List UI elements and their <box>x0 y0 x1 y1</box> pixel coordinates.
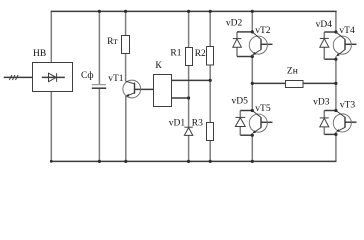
svg-text:К: К <box>155 61 162 71</box>
wire vT2 base stub <box>261 43 273 45</box>
wire R2 branch upper <box>209 11 211 47</box>
svg-text:R1: R1 <box>170 49 181 59</box>
wire vD3 top lead <box>324 110 336 112</box>
transistor vT5 <box>249 114 267 132</box>
node junction right rail vD4 top <box>334 30 337 33</box>
svg-text:vT5: vT5 <box>255 104 271 114</box>
node junction bottom rail mid <box>251 160 254 163</box>
transistor vT4 <box>333 36 351 54</box>
wire vT4 base stub <box>345 43 357 45</box>
wire top rail <box>51 10 337 12</box>
node junction K lower lead R1 <box>187 96 190 99</box>
svg-text:vD5: vD5 <box>232 97 249 107</box>
node junction right rail Zn <box>334 82 337 85</box>
node junction right rail vD3 bottom <box>334 133 337 136</box>
wire left rail upper segment <box>50 11 52 63</box>
svg-text:vD4: vD4 <box>316 20 333 30</box>
svg-text:vT4: vT4 <box>339 26 355 36</box>
zener diode vD1 <box>184 126 192 128</box>
node junction top rail capacitor <box>98 10 101 13</box>
transistor vT1 <box>123 80 141 98</box>
node junction bottom rail vD1 <box>187 160 190 163</box>
node junction bottom rail capacitor <box>98 160 101 163</box>
wire capacitor branch upper <box>98 11 100 84</box>
transistor vT2 <box>249 36 267 54</box>
wire R3 to bottom rail <box>209 141 211 162</box>
diode vD4 <box>320 37 329 39</box>
node junction mid rail vD2 bottom <box>251 55 254 58</box>
wire vT1 emitter down <box>125 96 127 161</box>
node junction top rail Rt <box>124 10 127 13</box>
wire vD5 anode-cathode verticals <box>239 111 241 136</box>
wire right rail segment 1 <box>335 11 337 32</box>
resistor R2 <box>207 47 214 66</box>
resistor Rt <box>122 36 130 54</box>
wire left rail lower segment <box>50 92 52 162</box>
wire R1 to vD1 <box>188 66 190 128</box>
wire vT5 emitter rail stub <box>251 133 253 135</box>
wire vT1 base to K box <box>135 88 154 90</box>
svg-text:vT3: vT3 <box>340 101 356 111</box>
wire vT3 base stub <box>345 121 357 123</box>
svg-text:Сф: Сф <box>81 70 94 81</box>
node junction top rail R2 <box>209 10 212 13</box>
wire vD2 anode-cathode verticals <box>236 32 238 57</box>
node junction mid rail Zn <box>251 82 254 85</box>
diode vD2 <box>233 38 242 40</box>
node junction K upper lead R2 <box>209 79 212 82</box>
transistor vT3 <box>333 114 351 132</box>
svg-text:R2: R2 <box>195 49 206 59</box>
wire vT3 emitter rail stub <box>335 132 337 135</box>
load Zn <box>286 81 304 88</box>
node junction top rail mid <box>251 10 254 13</box>
wire vT4 emitter rail stub <box>335 56 337 59</box>
wire K upper lead to R2 branch <box>172 79 211 81</box>
wire mid rail segment 1 <box>251 11 253 32</box>
wire Rt to vT1 collector <box>125 54 127 82</box>
rectifier block HB <box>33 63 73 92</box>
wire right rail segment 3 <box>335 134 337 161</box>
wire vD4 bottom lead <box>324 58 336 60</box>
wire capacitor branch lower <box>98 89 100 161</box>
wire mid rail segment 2 <box>251 57 253 111</box>
resistor R3 <box>207 123 214 141</box>
diode vD3 <box>320 117 329 119</box>
resistor R1 <box>186 48 193 66</box>
wire vD1 to bottom rail <box>188 135 190 161</box>
svg-text:vT1: vT1 <box>108 74 124 84</box>
node junction bottom rail vT1 emitter <box>124 160 127 163</box>
diode inside HB <box>42 76 65 78</box>
wire vD3 anode-cathode verticals <box>323 111 325 135</box>
svg-text:Zн: Zн <box>287 67 298 77</box>
svg-text:Rт: Rт <box>107 37 118 47</box>
node junction right rail vD4 bottom <box>334 58 337 61</box>
wire input lead <box>4 76 33 78</box>
capacitor Cf bottom plate <box>92 87 106 89</box>
relay K box <box>154 75 172 107</box>
node junction mid rail vD5 top <box>251 109 254 112</box>
wire bottom rail <box>51 160 337 162</box>
wire vD2 top lead <box>237 31 252 33</box>
svg-text:vD2: vD2 <box>226 19 243 29</box>
wire vD3 bottom lead <box>324 133 336 135</box>
node bottom-left corner junction <box>50 160 53 163</box>
node junction mid rail vD2 top <box>251 30 254 33</box>
node input slashes <box>9 75 18 80</box>
capacitor Cf top plate <box>92 84 106 86</box>
wire R2 to R3 <box>209 65 211 123</box>
svg-text:R3: R3 <box>192 118 203 128</box>
wire vD4 top lead <box>324 31 336 33</box>
wire right rail segment 2 <box>335 59 337 110</box>
wire Zn load line <box>252 82 336 84</box>
wire vD5 top lead <box>240 110 252 112</box>
wire mid rail segment 3 <box>251 135 253 161</box>
wire vD4 anode-cathode verticals <box>323 32 325 59</box>
wire K lower lead to R1 branch <box>172 97 189 99</box>
node junction mid rail vD5 bottom <box>251 134 254 137</box>
diode vD5 <box>235 116 245 118</box>
wire vD5 bottom lead <box>240 134 252 136</box>
svg-text:vD1: vD1 <box>169 118 186 128</box>
wire vT5 base stub <box>261 121 273 123</box>
svg-text:vD3: vD3 <box>313 98 330 108</box>
wire vD2 bottom lead <box>237 56 252 58</box>
node junction top rail R1 <box>187 10 190 13</box>
svg-text:НВ: НВ <box>33 49 46 59</box>
node junction bottom rail R3 <box>209 160 212 163</box>
wire Rt branch upper <box>125 11 127 36</box>
wire R1 branch upper <box>188 11 190 48</box>
node junction right rail vD3 top <box>334 109 337 112</box>
wire vT2 emitter rail stub <box>251 55 253 57</box>
svg-text:vT2: vT2 <box>255 26 271 36</box>
